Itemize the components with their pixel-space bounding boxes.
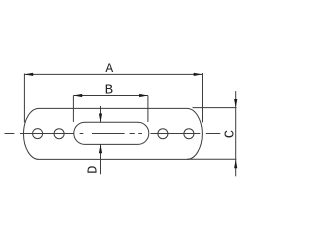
- dimension B: extension line right: [147, 96, 149, 123]
- hole 3: [158, 129, 168, 139]
- central slot (obround): [74, 122, 149, 144]
- centerline segment 2 (through left holes): [20, 133, 74, 135]
- svg-text:A: A: [105, 61, 113, 76]
- svg-text:B: B: [105, 83, 113, 99]
- centerline segment 5: [130, 133, 135, 135]
- svg-text:C: C: [223, 130, 239, 138]
- dimension C: upper arrowhead (pointing down): [234, 99, 237, 108]
- dimension C: dimension line (continuous): [235, 91, 237, 176]
- hole 2: [54, 129, 64, 139]
- centerline segment 8 (past right end): [206, 133, 220, 135]
- dimension A: dimension line: [24, 73, 202, 75]
- dimension C: lower arrowhead (pointing up): [234, 159, 237, 168]
- centerline segment 7 (through right holes): [151, 133, 201, 135]
- dimension B: extension line left: [72, 96, 74, 122]
- centerline (horizontal dash-dot axis), drawn as measured segments: [5, 133, 221, 135]
- dimension C: extension line top: [193, 107, 237, 109]
- hole 1: [33, 129, 43, 139]
- centerline segment 3 (dot inside slot): [80, 133, 84, 135]
- dimension D: lower arrow (pointing up at slot bottom): [100, 144, 102, 174]
- centerline segment 6: [138, 133, 142, 135]
- dimension D: upper arrow (pointing down at slot top): [100, 106, 102, 122]
- svg-text:D: D: [85, 165, 101, 173]
- dimension C: extension line bottom: [187, 158, 236, 160]
- dimension A: extension line right: [202, 73, 204, 122]
- dimension A: left arrowhead: [24, 73, 33, 76]
- centerline segment 4 (long dash inside slot): [92, 133, 125, 135]
- dimension B: dimension line: [73, 95, 147, 97]
- dimension B: left arrowhead: [73, 94, 82, 97]
- hole 4: [184, 129, 194, 139]
- dimension B: right arrowhead: [139, 94, 148, 97]
- plate outline (obround mounting plate): [24, 108, 203, 159]
- centerline segment 1: [5, 133, 15, 135]
- dimension A: right arrowhead: [194, 73, 203, 76]
- dimension A: extension line left: [23, 74, 25, 123]
